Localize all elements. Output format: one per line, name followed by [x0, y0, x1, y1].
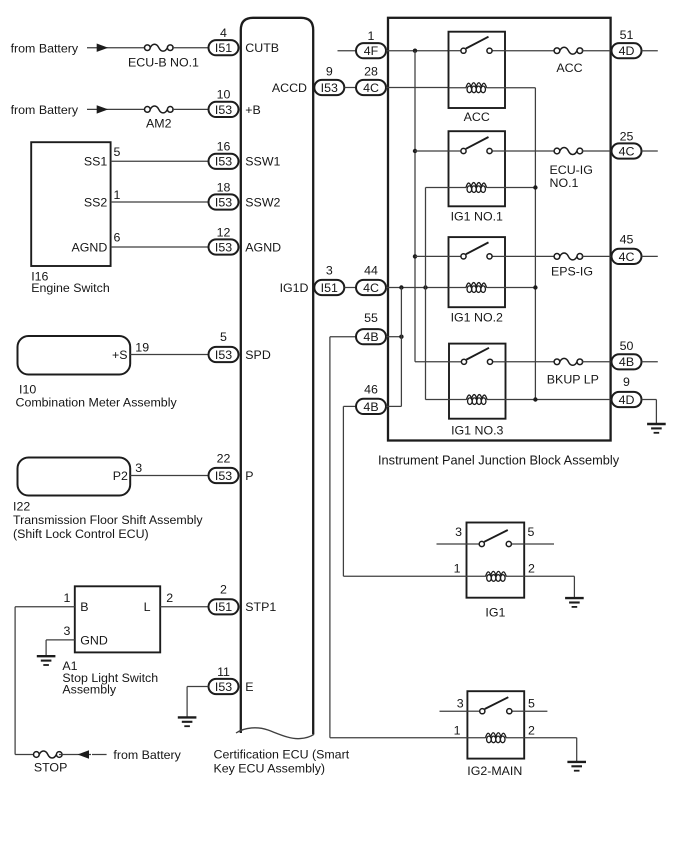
label +S inside I10: [112, 348, 128, 362]
svg-text:AM2: AM2: [146, 117, 172, 131]
svg-text:SS1: SS1: [84, 155, 108, 169]
pin label +B: [245, 103, 261, 117]
svg-text:I22: I22: [13, 500, 30, 514]
combination meter I10 box: [18, 336, 131, 375]
svg-text:B: B: [80, 600, 88, 614]
wire 4B-55 to inner junction: [386, 336, 401, 338]
relay IG1 NO.3 box: [449, 344, 506, 419]
relay IG2-MAIN coil: [486, 733, 507, 743]
pin label STP1: [245, 600, 276, 614]
connector 4F pin 1: [356, 29, 386, 58]
stub right of IG1 switch: [524, 543, 554, 545]
connector I53 pin 22 (P): [209, 452, 239, 484]
pin number 6 of I16: [114, 231, 121, 245]
label I10: [19, 383, 36, 397]
svg-text:P2: P2: [113, 469, 128, 483]
svg-text:IG1 NO.3: IG1 NO.3: [451, 424, 503, 438]
inner vertical to IG1 relay: [342, 406, 344, 576]
pin number 3 of A1: [64, 624, 71, 638]
wire fuse ACC to 4D-51: [582, 50, 612, 52]
label SS2 inside I16: [84, 195, 108, 209]
pin number 2 of IG1: [528, 562, 535, 576]
svg-text:ACC: ACC: [464, 110, 490, 124]
svg-text:Key ECU Assembly): Key ECU Assembly): [214, 761, 326, 775]
wire 4F to ACC relay switch: [386, 50, 449, 52]
stub left of IG1 switch: [437, 543, 467, 545]
outer vertical to IG2-MAIN: [329, 337, 331, 738]
svg-text:STP1: STP1: [245, 600, 276, 614]
svg-text:3: 3: [455, 525, 462, 539]
label AGND inside I16: [71, 240, 107, 254]
svg-text:ACC: ACC: [556, 61, 582, 75]
stub right of IG2-MAIN switch: [524, 710, 547, 712]
relay ACC switch wires: [449, 50, 506, 52]
relay IG1 switch wires: [467, 543, 525, 545]
svg-text:+B: +B: [245, 103, 261, 117]
pin label ACCD: [272, 81, 307, 95]
relay IG1 NO.1 coil: [466, 183, 487, 193]
label Stop Light Switch: [62, 671, 158, 685]
svg-text:28: 28: [364, 65, 378, 79]
svg-text:4C: 4C: [619, 250, 635, 264]
svg-text:10: 10: [217, 88, 231, 102]
svg-text:CUTB: CUTB: [245, 41, 279, 55]
wire L to I51 pin 2: [160, 606, 209, 608]
svg-text:1: 1: [114, 188, 121, 202]
label Assembly: [62, 682, 117, 696]
svg-text:1: 1: [454, 723, 461, 737]
svg-text:9: 9: [326, 65, 333, 79]
node IG1 NO.2 feed: [413, 254, 417, 258]
pin number 5 of I16: [114, 145, 121, 159]
connector 4C pin 25: [612, 129, 642, 158]
connector I51 pin 4 (CUTB): [209, 26, 239, 55]
label relay ACC: [464, 110, 490, 124]
svg-text:GND: GND: [80, 633, 108, 647]
svg-text:NO.1: NO.1: [550, 176, 579, 190]
shift lock ECU I22 box: [18, 458, 131, 496]
fuse ECU-B NO.1: [145, 44, 174, 51]
svg-text:AGND: AGND: [245, 240, 281, 254]
connector 4C pin 45: [612, 233, 642, 264]
relay IG1 NO.2 coil: [466, 283, 487, 293]
svg-text:I53: I53: [215, 155, 232, 169]
svg-text:SSW1: SSW1: [245, 155, 280, 169]
svg-text:I53: I53: [215, 240, 232, 254]
svg-text:4: 4: [220, 26, 227, 40]
svg-text:2: 2: [528, 723, 535, 737]
arrow from Battery row 1: [97, 44, 109, 52]
node ACC feed: [413, 49, 417, 53]
pin label SSW1: [245, 155, 280, 169]
pin number 3 of IG2-MAIN: [457, 696, 464, 710]
relay ACC coil: [466, 83, 487, 93]
pin label E: [245, 680, 253, 694]
relay IG1 NO.1 switch wires: [449, 150, 506, 152]
label from Battery (bottom): [113, 748, 181, 762]
label Combination Meter Assembly: [16, 396, 178, 410]
svg-text:1: 1: [368, 29, 375, 43]
connector I53 pin 10 (+B): [209, 88, 239, 117]
svg-text:Transmission Floor Shift Assem: Transmission Floor Shift Assembly: [13, 513, 203, 527]
right coil-return bus: [534, 88, 536, 400]
svg-text:44: 44: [364, 264, 378, 278]
wire STOP fuse to arrow: [59, 754, 91, 756]
svg-text:IG1 NO.1: IG1 NO.1: [451, 210, 503, 224]
label A1: [62, 659, 77, 673]
svg-text:I53: I53: [215, 469, 232, 483]
fuse STOP: [34, 751, 63, 758]
svg-text:I53: I53: [215, 348, 232, 362]
label IG2-MAIN: [467, 764, 522, 778]
pin number 19 of I10: [135, 340, 149, 354]
svg-text:Engine Switch: Engine Switch: [31, 281, 110, 295]
svg-text:SSW2: SSW2: [245, 195, 280, 209]
svg-text:P: P: [245, 469, 253, 483]
svg-text:I51: I51: [215, 41, 232, 55]
svg-text:4D: 4D: [619, 393, 635, 407]
svg-text:19: 19: [135, 340, 149, 354]
pin number 5 of IG2-MAIN: [528, 696, 535, 710]
svg-text:3: 3: [326, 264, 333, 278]
svg-text:5: 5: [528, 696, 535, 710]
label I22: [13, 500, 30, 514]
connector I53 pin 5 (SPD): [209, 330, 239, 362]
svg-text:IG1: IG1: [485, 606, 505, 620]
svg-text:Combination Meter Assembly: Combination Meter Assembly: [16, 396, 178, 410]
svg-text:E: E: [245, 680, 253, 694]
relay IG1 coil wires: [467, 575, 525, 577]
pin label SPD: [245, 348, 271, 362]
svg-text:3: 3: [457, 696, 464, 710]
svg-text:22: 22: [217, 452, 231, 466]
svg-text:4B: 4B: [363, 400, 378, 414]
svg-text:4B: 4B: [363, 330, 378, 344]
svg-text:4F: 4F: [364, 44, 379, 58]
wire 4B-46 to inner vertical: [343, 405, 356, 407]
svg-text:12: 12: [217, 225, 231, 239]
svg-text:(Shift Lock Control ECU): (Shift Lock Control ECU): [13, 527, 149, 541]
relay IG1 NO.2 box: [449, 237, 506, 307]
left vertical IG1D to 4B-46: [400, 288, 402, 407]
ground IG2-MAIN: [567, 762, 586, 771]
pin number 3 of IG1: [455, 525, 462, 539]
relay IG1 NO.1 switch: [461, 137, 492, 154]
node IG1 NO.1 feed: [413, 149, 417, 153]
svg-text:4C: 4C: [619, 144, 635, 158]
svg-text:2: 2: [528, 562, 535, 576]
relay IG1 switch: [479, 530, 511, 547]
svg-text:STOP: STOP: [34, 761, 68, 775]
relay IG1 NO.2 switch wires: [449, 255, 506, 257]
pin label IG1D: [280, 281, 309, 295]
svg-text:from Battery: from Battery: [11, 41, 79, 55]
connector 4B pin 46: [356, 383, 386, 415]
svg-text:from Battery: from Battery: [11, 103, 79, 117]
wire 4B-46 bus to IG1 coil: [343, 575, 466, 577]
wire ACC coil to right bus: [505, 87, 535, 89]
wire IG1 NO.3 coil to 4D-9: [506, 399, 612, 401]
svg-text:IG1 NO.2: IG1 NO.2: [451, 311, 503, 325]
stub right of 4C-45: [642, 255, 658, 257]
svg-text:6: 6: [114, 231, 121, 245]
arrow from Battery row 2: [97, 105, 109, 113]
label AM2: [146, 117, 172, 131]
wire GND pin to ground: [46, 640, 75, 656]
label L inside A1: [144, 600, 151, 614]
fuse AM2: [145, 106, 174, 113]
pin label SSW2: [245, 195, 280, 209]
label from Battery (top row 1): [11, 41, 79, 55]
ground IG1: [565, 598, 584, 607]
svg-text:5: 5: [220, 330, 227, 344]
ground A1: [37, 656, 56, 665]
wire from-battery to fuse AM2: [87, 108, 146, 110]
Instrument Panel Junction Block Assembly outline: [388, 18, 611, 441]
pin label CUTB: [245, 41, 279, 55]
svg-text:4C: 4C: [363, 81, 379, 95]
label B inside A1: [80, 600, 88, 614]
svg-text:L: L: [144, 600, 151, 614]
wire IG1 NO.2 switch to fuse EPS-IG: [505, 255, 555, 257]
vertical feed bus from 4F: [414, 51, 416, 362]
svg-text:18: 18: [217, 180, 231, 194]
pin label P: [245, 469, 253, 483]
relay IG1 NO.3 switch wires: [449, 361, 506, 363]
label P2 inside I22: [113, 469, 128, 483]
wire P2 to I53 pin 22: [130, 475, 209, 477]
wire ACC switch to fuse ACC: [505, 50, 555, 52]
svg-text:11: 11: [217, 665, 230, 679]
svg-text:IG1D: IG1D: [280, 281, 309, 295]
relay IG1 NO.2 coil wires: [449, 287, 506, 289]
wire AGND to I53 pin 12: [111, 246, 209, 248]
engine switch I16 box: [31, 142, 110, 266]
label ECU-B NO.1: [128, 56, 199, 70]
relay IG2-MAIN box: [467, 691, 524, 758]
svg-text:3: 3: [135, 461, 142, 475]
svg-text:+S: +S: [112, 348, 128, 362]
svg-text:45: 45: [620, 233, 634, 247]
wire feed to IG1 NO.2 switch: [415, 255, 449, 257]
pin number 1 of IG2-MAIN: [454, 723, 461, 737]
svg-text:ECU-IG: ECU-IG: [550, 163, 593, 177]
svg-text:51: 51: [620, 28, 634, 42]
svg-text:I10: I10: [19, 383, 36, 397]
wire IG1 NO.3 switch to fuse BKUP LP: [506, 361, 556, 363]
stub right of 4C-25: [642, 150, 658, 152]
node junction IG1D row with coil vertical: [423, 285, 427, 289]
relay IG2-MAIN switch wires: [467, 710, 524, 712]
stop light switch A1 box: [75, 586, 160, 652]
svg-text:16: 16: [217, 140, 231, 154]
wire 4B-55 to outer vertical: [330, 336, 356, 338]
label fuse EPS-IG: [551, 265, 593, 279]
wire IG1 NO.1 switch to fuse ECU-IG NO.1: [505, 150, 555, 152]
stub right of 4B-50: [642, 361, 658, 363]
svg-text:I51: I51: [321, 281, 338, 295]
svg-text:2: 2: [220, 583, 227, 597]
svg-text:I53: I53: [321, 81, 338, 95]
relay IG2-MAIN coil wires: [467, 737, 524, 739]
relay IG1 coil: [486, 571, 507, 581]
pin number 1 of A1: [64, 591, 71, 605]
connector I51 pin 3 (IG1D): [314, 264, 344, 296]
label IG1: [485, 606, 505, 620]
node junction IG1D row with left vertical: [399, 285, 403, 289]
wire IG1 NO.2 coil to right bus: [505, 287, 535, 289]
svg-text:55: 55: [364, 311, 378, 325]
svg-text:46: 46: [364, 383, 378, 397]
wire IG1 NO.1 coil to right bus: [505, 187, 535, 189]
wire coil vertical from IG1 NO.1 coil: [425, 188, 427, 400]
svg-text:Instrument Panel Junction Bloc: Instrument Panel Junction Block Assembly: [378, 452, 620, 467]
wire fuse to 4B-50: [582, 361, 612, 363]
relay IG1 box: [467, 523, 525, 598]
label fuse ACC: [556, 61, 582, 75]
label SS1 inside I16: [84, 155, 108, 169]
label relay IG1 NO.1: [451, 210, 503, 224]
node IG1 NO.1 coil return: [533, 185, 537, 189]
label fuse BKUP LP: [547, 372, 599, 386]
connector 4B pin 55: [356, 311, 386, 344]
wire 4C-44 into junction block to IG1 NO.2 relay coil: [386, 287, 449, 289]
pin number 1 of I16: [114, 188, 121, 202]
relay IG1 NO.1 box: [449, 131, 506, 206]
relay IG1 NO.2 switch: [461, 242, 492, 259]
wire fuse to connector I51 pin 4: [172, 47, 209, 49]
svg-text:5: 5: [114, 145, 121, 159]
fuse ACC: [554, 47, 583, 54]
connector I53 pin 18 (SSW2): [209, 180, 239, 209]
connector 4C pin 44: [356, 264, 386, 296]
relay ACC box: [449, 32, 506, 108]
svg-text:I51: I51: [215, 600, 232, 614]
wire feed to IG1 NO.3 switch: [415, 361, 449, 363]
fuse ECU-IG NO.1: [554, 148, 583, 155]
svg-text:9: 9: [623, 375, 630, 389]
svg-text:I53: I53: [215, 103, 232, 117]
connector I53 pin 11 (E): [209, 665, 239, 694]
svg-text:3: 3: [64, 624, 71, 638]
svg-text:4C: 4C: [363, 281, 379, 295]
svg-text:SPD: SPD: [245, 348, 271, 362]
label GND inside A1: [80, 633, 108, 647]
wire to STOP fuse: [15, 754, 36, 756]
wire from-battery to fuse ECU-B NO.1: [87, 47, 146, 49]
svg-text:IG2-MAIN: IG2-MAIN: [467, 764, 522, 778]
svg-text:ACCD: ACCD: [272, 81, 307, 95]
connector I53 pin 9 (ACCD): [314, 65, 344, 96]
wire I51-3 to 4C-44: [344, 287, 356, 289]
pin label AGND: [245, 240, 281, 254]
wire arrow to label: [92, 754, 107, 756]
arrow from Battery (bottom): [78, 750, 90, 758]
wire IG2-MAIN coil to ground: [524, 738, 577, 762]
pin number 2 of IG2-MAIN: [528, 723, 535, 737]
wire 4C-28 into junction block to ACC relay coil: [386, 87, 449, 89]
connector 4C pin 28: [356, 65, 386, 96]
svg-text:I53: I53: [215, 195, 232, 209]
connector I53 pin 12 (AGND): [209, 225, 239, 254]
wire E to ground: [187, 687, 208, 718]
relay IG2-MAIN switch: [480, 697, 512, 714]
ground 4D-9: [647, 424, 666, 433]
node IG1 NO.3 coil return: [533, 397, 537, 401]
svg-text:1: 1: [64, 591, 71, 605]
svg-text:ECU-B NO.1: ECU-B NO.1: [128, 56, 199, 70]
svg-text:BKUP LP: BKUP LP: [547, 372, 599, 386]
connector I51 pin 2 (STP1): [209, 583, 239, 615]
relay IG1 NO.3 coil wires: [426, 399, 506, 401]
svg-text:1: 1: [454, 562, 461, 576]
pin number 5 of IG1: [528, 525, 535, 539]
wire IG1 coil to ground: [524, 576, 574, 598]
wire 4B-46 inner stub: [386, 405, 401, 407]
svg-text:SS2: SS2: [84, 195, 108, 209]
label relay IG1 NO.2: [451, 311, 503, 325]
Certification ECU (Smart Key ECU Assembly) block outline: [236, 18, 314, 739]
wire B to left vertical: [15, 606, 75, 608]
label Certification ECU (Smart Key ECU Assembly): [214, 748, 350, 776]
connector 4D pin 9: [612, 375, 642, 407]
svg-text:4B: 4B: [619, 355, 634, 369]
wire I53-9 to 4C-28: [344, 87, 356, 89]
pin number 2 of A1: [166, 591, 173, 605]
connector I53 pin 16 (SSW1): [209, 140, 239, 169]
pin number 3 of I22: [135, 461, 142, 475]
relay ACC coil wires: [449, 87, 506, 89]
label Transmission Floor Shift Assembly: [13, 513, 203, 527]
label from Battery (top row 2): [11, 103, 79, 117]
connector 4D pin 51: [612, 28, 642, 58]
relay IG1 NO.3 coil: [466, 395, 487, 405]
ground E: [178, 717, 197, 726]
wire fuse AM2 to connector I53 pin 10: [172, 108, 209, 110]
svg-text:50: 50: [620, 339, 634, 353]
wire +S to I53 pin 5: [130, 354, 209, 356]
svg-text:2: 2: [166, 591, 173, 605]
relay IG1 NO.3 switch: [461, 348, 492, 365]
label STOP: [34, 761, 68, 775]
node 4B-55 junction: [399, 335, 403, 339]
wire left vertical down to STOP fuse row: [14, 607, 16, 755]
label Engine Switch: [31, 281, 110, 295]
svg-text:25: 25: [620, 129, 634, 143]
svg-text:AGND: AGND: [71, 240, 107, 254]
stub right of 4D-51: [642, 50, 658, 52]
fuse BKUP LP: [554, 358, 583, 365]
label Instrument Panel Junction Block Assembly: [378, 452, 620, 467]
wire 4B-55 bus to IG2-MAIN coil: [330, 737, 468, 739]
svg-text:Certification ECU (Smart: Certification ECU (Smart: [214, 748, 350, 762]
svg-text:Assembly: Assembly: [62, 682, 117, 696]
pin number 1 of IG1: [454, 562, 461, 576]
label relay IG1 NO.3: [451, 424, 503, 438]
wire fuse to 4C-25: [582, 150, 612, 152]
svg-text:from Battery: from Battery: [113, 748, 181, 762]
node IG1 NO.2 coil return: [533, 285, 537, 289]
wire SS2 to I53 pin 18: [111, 201, 209, 203]
svg-text:I53: I53: [215, 680, 232, 694]
stub left of IG2-MAIN switch: [440, 710, 468, 712]
wire feed to IG1 NO.1 switch: [415, 150, 449, 152]
wire fuse to 4C-45: [582, 255, 612, 257]
label (Shift Lock Control ECU): [13, 527, 149, 541]
connector 4B pin 50: [612, 339, 642, 369]
wire SS1 to I53 pin 16: [111, 160, 209, 162]
fuse EPS-IG: [554, 253, 583, 260]
